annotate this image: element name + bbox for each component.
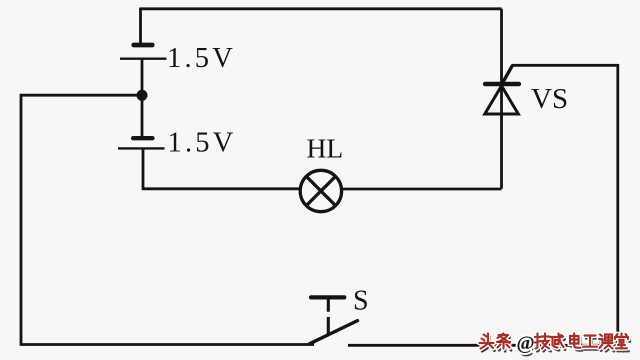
svg-text:@: @ [517,334,535,355]
svg-text:S: S [353,286,369,317]
svg-text:HL: HL [307,132,344,163]
svg-text:1.5V: 1.5V [168,128,237,159]
svg-text:1.5V: 1.5V [167,43,236,74]
svg-text:VS: VS [531,83,568,115]
